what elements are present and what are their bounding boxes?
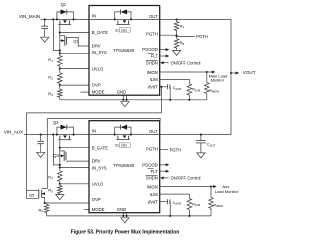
arrow PGOOD U2 xyxy=(160,164,167,166)
resistor RIMON xyxy=(206,72,208,83)
junction B_GATE xyxy=(59,32,61,34)
transistor Q3 body diode xyxy=(57,127,61,135)
svg-text:dVdT: dVdT xyxy=(148,84,158,89)
ground below COUT xyxy=(197,153,205,158)
svg-text:IN_SYS: IN_SYS xyxy=(92,50,107,55)
wire VIN_MAIN to IN pin xyxy=(41,18,89,20)
capacitor CdVdT 2 xyxy=(167,199,169,204)
junction RILIM 2 bottom xyxy=(188,215,190,217)
junction divider top 2 xyxy=(59,164,61,166)
svg-text:GND: GND xyxy=(117,207,126,212)
svg-text:R1: R1 xyxy=(48,57,53,63)
wire RB to ground xyxy=(176,48,178,50)
junction IMON xyxy=(206,71,208,73)
ground symbol below U1 xyxy=(121,102,129,107)
transistor Q1 channel xyxy=(59,20,61,24)
junction input cap 2 top xyxy=(40,134,42,136)
svg-text:FLT: FLT xyxy=(151,169,159,174)
junction OVP tap xyxy=(59,84,61,86)
arrow FLT U2 xyxy=(160,170,167,172)
junction Q3 left xyxy=(56,134,58,136)
wire ILIM net xyxy=(160,78,190,80)
svg-text:Q5: Q5 xyxy=(29,193,35,198)
svg-text:OUT: OUT xyxy=(149,129,158,134)
wire OUT 2 to vout rail xyxy=(160,134,231,136)
arrow main load monitor xyxy=(207,71,213,73)
svg-text:TPS26630: TPS26630 xyxy=(113,48,134,53)
svg-text:mΩ: mΩ xyxy=(121,28,127,32)
label 31 mohm U1 xyxy=(119,28,130,32)
junction dVdT xyxy=(160,86,162,88)
junction input cap top xyxy=(44,18,46,20)
junction VOUT xyxy=(230,72,232,74)
wire RA to PGTH junction xyxy=(176,31,178,36)
wire R2-R3 xyxy=(59,83,61,89)
internal FET U2 body diode xyxy=(115,127,121,135)
svg-text:PGOOD: PGOOD xyxy=(142,47,158,52)
internal FET U1 body diode xyxy=(115,12,121,20)
arrow PGOOD U1 xyxy=(160,49,167,51)
junction PGTH tap xyxy=(175,35,177,37)
wire dVdT net xyxy=(160,86,168,88)
wire R1-R2 xyxy=(59,66,61,73)
svg-text:Load Monitor: Load Monitor xyxy=(215,189,239,194)
ground below CIN2 xyxy=(37,152,45,157)
svg-text:R3: R3 xyxy=(48,91,53,97)
junction divider feed xyxy=(52,18,54,20)
resistor RILIM xyxy=(187,84,192,95)
wire rail2 to divider vertical xyxy=(53,135,59,165)
wire Q5 drain aux disable net xyxy=(47,119,160,121)
svg-text:dVdT: dVdT xyxy=(148,200,158,205)
junction IN_SYS xyxy=(59,52,61,54)
arrow aux load monitor xyxy=(211,186,214,188)
svg-text:B_GATE: B_GATE xyxy=(92,30,108,35)
internal FET U1 channel xyxy=(117,20,119,24)
resistor RA xyxy=(176,19,178,21)
ground below R5 xyxy=(56,195,64,200)
svg-text:31: 31 xyxy=(115,144,119,148)
arrow SHDN 2 on/off control xyxy=(163,177,169,179)
junction Q1 right xyxy=(73,18,75,20)
ground rail bottom channel xyxy=(47,215,211,217)
wire ILIM 2 net xyxy=(160,193,190,195)
wire Q3 gate vertical bus xyxy=(59,140,61,171)
svg-text:MODE: MODE xyxy=(92,90,105,95)
svg-text:UVLO: UVLO xyxy=(92,66,104,71)
svg-text:IN: IN xyxy=(92,129,96,134)
wire R5 to ground xyxy=(59,194,61,195)
wire Q4 gate to DRV 2 xyxy=(66,160,89,162)
svg-text:OVP: OVP xyxy=(92,197,101,202)
svg-text:PGOOD: PGOOD xyxy=(142,162,158,167)
svg-text:FLT: FLT xyxy=(151,54,159,59)
resistor R6 xyxy=(45,202,47,204)
svg-text:DRV: DRV xyxy=(92,44,101,49)
wire Q1 gate vertical bus xyxy=(59,25,61,56)
svg-text:Figure 53. Priority Power Mux: Figure 53. Priority Power Mux Implementa… xyxy=(71,230,180,236)
junction internal fet left U1 xyxy=(114,18,116,20)
svg-text:R4: R4 xyxy=(48,174,53,180)
wire MODE 2 stub xyxy=(84,209,89,211)
svg-text:OVP: OVP xyxy=(92,83,101,88)
ground symbol below U2 xyxy=(121,218,129,223)
junction internal fet left U2 xyxy=(114,134,116,136)
svg-text:TPS26630: TPS26630 xyxy=(113,163,134,168)
svg-text:B_GATE: B_GATE xyxy=(92,145,108,150)
junction B_GATE 2 xyxy=(59,147,61,149)
capacitor CdVdT top xyxy=(167,84,169,89)
transistor Q3 gate bar xyxy=(58,139,71,141)
ground rail top channel xyxy=(60,99,207,101)
wire PGTH 2 net label lead xyxy=(160,149,169,151)
svg-text:ILIM: ILIM xyxy=(150,77,159,82)
transistor Q3 channel xyxy=(59,136,61,140)
wire PGTH pin xyxy=(160,34,177,36)
wire UVLO 2 xyxy=(60,183,89,185)
ground below CIN1 xyxy=(41,37,49,42)
junction Q3 right xyxy=(73,134,75,136)
junction IN_SYS 2 xyxy=(59,166,61,168)
svg-text:DRV: DRV xyxy=(92,159,101,164)
op-amp U1 TPS26630 box xyxy=(89,6,160,96)
wire Q2 gate to DRV xyxy=(67,37,89,46)
transistor Q1 body diode xyxy=(57,12,61,20)
wire internal rail U2 xyxy=(89,134,160,136)
transistor Q4 xyxy=(63,151,65,161)
resistor R3 xyxy=(58,89,63,97)
ground below RB xyxy=(173,50,181,55)
transistor Q1 gate bar xyxy=(58,24,71,26)
svg-text:MODE: MODE xyxy=(92,207,105,212)
junction internal fet right U2 xyxy=(130,134,132,136)
wire OVP xyxy=(60,84,89,86)
transistor Q2 xyxy=(64,35,66,45)
wire B_GATE xyxy=(60,32,89,34)
svg-text:OUT: OUT xyxy=(149,14,158,19)
resistor RILIM 2 xyxy=(187,199,192,210)
svg-text:VIN_MAIN: VIN_MAIN xyxy=(19,14,40,19)
junction RILIM bottom xyxy=(188,99,190,101)
wire internal rail U1 xyxy=(89,18,160,20)
svg-text:IMON: IMON xyxy=(147,185,158,190)
svg-text:ILIM: ILIM xyxy=(150,192,159,197)
svg-text:R2: R2 xyxy=(48,75,53,81)
svg-text:UVLO: UVLO xyxy=(92,182,104,187)
wire vout vertical rail xyxy=(230,19,232,134)
svg-text:IN: IN xyxy=(92,14,96,19)
svg-text:PGTH: PGTH xyxy=(196,34,208,39)
svg-text:Q2: Q2 xyxy=(73,39,79,44)
junction internal fet right U1 xyxy=(130,18,132,20)
transistor Q5 xyxy=(27,189,39,191)
resistor R2 xyxy=(58,73,63,84)
internal FET U1 gate bar xyxy=(116,23,129,25)
arrow FLT U1 xyxy=(160,55,167,57)
wire OUT to vout rail xyxy=(160,18,231,20)
wire R3 bottom to ground rail xyxy=(59,97,61,100)
arrow VOUT xyxy=(231,72,236,74)
resistor R1 xyxy=(58,56,63,67)
op-amp U2 TPS26630 box xyxy=(89,121,160,213)
svg-text:ON/OFF Control: ON/OFF Control xyxy=(171,176,201,181)
junction UVLO tap xyxy=(59,68,61,70)
wire B_GATE 2 xyxy=(60,147,89,149)
junction COUT xyxy=(200,134,202,136)
capacitor CIN1 xyxy=(44,19,46,26)
resistor R4 xyxy=(58,171,63,182)
svg-text:R6: R6 xyxy=(39,207,44,213)
svg-text:R5: R5 xyxy=(48,188,53,194)
label 31 mohm U2 xyxy=(119,143,130,147)
svg-text:VIN_AUX: VIN_AUX xyxy=(4,129,23,134)
wire VIN_AUX to IN pin xyxy=(24,134,89,136)
arrow SHDN on/off control xyxy=(163,62,169,64)
wire MODE stub xyxy=(80,91,89,93)
wire IN_SYS 2 xyxy=(60,166,89,168)
svg-text:Q1: Q1 xyxy=(61,2,67,7)
svg-text:IMON: IMON xyxy=(147,70,158,75)
wire dVdT 2 net xyxy=(160,201,168,203)
junction RA top xyxy=(176,18,178,20)
junction CdVdT bottom xyxy=(169,99,171,101)
wire IMON net xyxy=(160,71,207,73)
wire R4-R5 xyxy=(59,181,61,185)
junction Q5 source OVP R6 xyxy=(44,202,46,204)
capacitor CIN2 xyxy=(40,135,42,142)
wire rail to divider vertical xyxy=(53,19,59,50)
svg-text:GND: GND xyxy=(117,90,126,95)
resistor RIMON 2 xyxy=(210,187,212,198)
wire OVP 2 xyxy=(45,202,89,204)
svg-text:VOUT: VOUT xyxy=(243,70,256,75)
svg-text:31: 31 xyxy=(115,28,119,32)
junction CdVdT 2 bottom xyxy=(169,215,171,217)
junction divider top xyxy=(59,49,61,51)
svg-text:Q3: Q3 xyxy=(53,120,59,125)
svg-text:SHDN: SHDN xyxy=(146,60,158,65)
wire dVdT to Q5 gate priority net xyxy=(27,87,162,199)
resistor RB xyxy=(176,36,178,38)
wire PGTH net label lead xyxy=(177,35,195,37)
junction IMON 2 xyxy=(210,185,212,187)
svg-text:PGTH: PGTH xyxy=(170,148,182,153)
wire IMON 2 net xyxy=(160,186,211,188)
svg-text:PGTH: PGTH xyxy=(146,31,158,36)
junction GND pins U2 xyxy=(122,215,124,217)
svg-text:Q4: Q4 xyxy=(53,153,59,158)
svg-text:SHDN: SHDN xyxy=(146,176,158,181)
wire UVLO xyxy=(60,68,89,70)
internal FET U2 channel xyxy=(117,136,119,140)
internal FET U2 gate bar xyxy=(116,139,129,141)
capacitor COUT xyxy=(200,135,202,141)
resistor R5 xyxy=(58,186,63,194)
svg-text:Monitor: Monitor xyxy=(211,78,225,83)
junction divider feed 2 xyxy=(52,134,54,136)
junction Q1 left xyxy=(56,18,58,20)
wire GND pin stubs U1 xyxy=(122,95,124,100)
junction GND pins U1 xyxy=(122,99,124,101)
svg-text:PGTH: PGTH xyxy=(146,147,158,152)
wire IN_SYS xyxy=(60,52,89,54)
junction UVLO 2 tap xyxy=(59,183,61,185)
svg-text:IN_SYS: IN_SYS xyxy=(92,165,107,170)
svg-text:mΩ: mΩ xyxy=(121,144,127,148)
wire GND pin stubs U2 xyxy=(122,213,124,216)
svg-text:ON/OFF Control: ON/OFF Control xyxy=(171,60,201,65)
